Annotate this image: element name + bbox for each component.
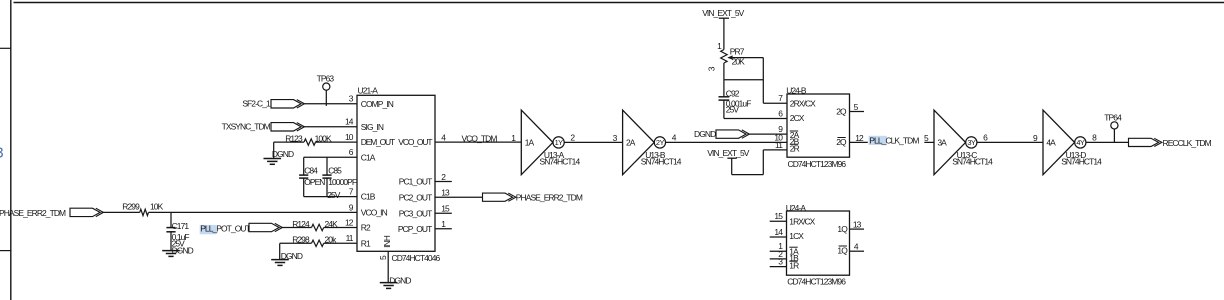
svg-text:PC2_OUT: PC2_OUT <box>399 192 432 202</box>
svg-text:11: 11 <box>346 233 354 243</box>
svg-text:DGND: DGND <box>694 129 716 139</box>
svg-text:25V: 25V <box>327 190 341 200</box>
svg-text:10: 10 <box>345 132 354 142</box>
svg-text:3Y: 3Y <box>967 138 976 147</box>
svg-text:VIN_EXT_5V: VIN_EXT_5V <box>702 8 744 18</box>
svg-text:R123: R123 <box>285 134 303 144</box>
svg-text:DGND: DGND <box>272 149 294 159</box>
svg-text:TP63: TP63 <box>317 73 335 83</box>
svg-text:10K: 10K <box>150 201 164 211</box>
svg-text:C85: C85 <box>328 165 342 175</box>
svg-text:24K: 24K <box>325 219 339 229</box>
svg-text:VCO_TDM: VCO_TDM <box>462 133 498 143</box>
svg-text:PCP_OUT: PCP_OUT <box>398 224 432 234</box>
svg-text:1Q: 1Q <box>837 224 848 234</box>
svg-text:2Q: 2Q <box>836 107 847 117</box>
svg-text:12: 12 <box>345 217 354 227</box>
svg-text:TP64: TP64 <box>1104 113 1122 123</box>
svg-text:2A: 2A <box>626 138 636 148</box>
svg-text:VIN_EXT_5V: VIN_EXT_5V <box>707 148 749 158</box>
svg-text:C1B: C1B <box>361 192 376 202</box>
svg-text:DGND: DGND <box>389 275 411 285</box>
svg-text:PHASE_ERR2_TDM: PHASE_ERR2_TDM <box>0 208 66 218</box>
svg-text:CD74HCT4046: CD74HCT4046 <box>392 253 441 263</box>
svg-text:CD74HCT123M96: CD74HCT123M96 <box>788 159 847 169</box>
svg-text:PC1_OUT: PC1_OUT <box>399 177 432 187</box>
svg-text:SF2-C_1: SF2-C_1 <box>242 99 271 109</box>
svg-text:R124: R124 <box>292 219 310 229</box>
svg-text:100K: 100K <box>315 134 332 144</box>
svg-text:C1A: C1A <box>361 152 376 162</box>
svg-text:1RX/CX: 1RX/CX <box>789 216 815 226</box>
svg-text:13: 13 <box>853 220 862 230</box>
svg-text:SN74HCT14: SN74HCT14 <box>952 156 993 166</box>
svg-text:U24-B: U24-B <box>786 86 807 96</box>
svg-text:10000PF: 10000PF <box>328 177 357 187</box>
svg-text:4Y: 4Y <box>1076 138 1085 147</box>
svg-text:DGND: DGND <box>172 245 194 255</box>
svg-text:1Q: 1Q <box>837 245 848 255</box>
svg-text:U21-A: U21-A <box>358 86 379 96</box>
svg-text:2R: 2R <box>790 144 800 154</box>
svg-text:C92: C92 <box>726 88 740 98</box>
svg-text:1A: 1A <box>525 138 535 148</box>
svg-text:SN74HCT14: SN74HCT14 <box>641 156 682 166</box>
svg-text:1CX: 1CX <box>789 231 804 241</box>
svg-text:INH: INH <box>382 235 392 248</box>
svg-text:CD74HCT123M96: CD74HCT123M96 <box>787 277 846 287</box>
svg-text:RECCLK_TDM: RECCLK_TDM <box>1163 138 1212 148</box>
svg-text:PR7: PR7 <box>730 46 745 56</box>
svg-text:11: 11 <box>775 140 783 150</box>
svg-text:4A: 4A <box>1046 138 1056 148</box>
svg-text:2CX: 2CX <box>790 113 805 123</box>
svg-text:20k: 20k <box>325 234 338 244</box>
svg-text:PHASE_ERR2_TDM: PHASE_ERR2_TDM <box>516 192 583 202</box>
svg-text:VCO_OUT: VCO_OUT <box>398 137 432 147</box>
svg-text:14: 14 <box>774 227 783 237</box>
svg-text:25V: 25V <box>726 105 740 115</box>
svg-text:DGND: DGND <box>281 251 303 261</box>
svg-text:DEM_OUT: DEM_OUT <box>361 137 395 147</box>
svg-text:VCO_IN: VCO_IN <box>361 208 388 218</box>
svg-text:13: 13 <box>441 188 450 198</box>
svg-text:12: 12 <box>855 133 864 143</box>
svg-text:SIG_IN: SIG_IN <box>361 122 384 132</box>
svg-text:R2: R2 <box>361 223 371 233</box>
svg-text:PLL_POT_OUT: PLL_POT_OUT <box>200 224 250 234</box>
svg-text:R1: R1 <box>361 238 371 248</box>
svg-text:14: 14 <box>345 117 354 127</box>
svg-text:U24-A: U24-A <box>786 203 807 213</box>
svg-text:R299: R299 <box>122 201 140 211</box>
svg-text:PC3_OUT: PC3_OUT <box>399 208 432 218</box>
svg-text:OPEN: OPEN <box>304 177 325 187</box>
svg-text:3A: 3A <box>937 138 947 148</box>
svg-text:C171: C171 <box>172 221 190 231</box>
svg-text:PLL_CLK_TDM: PLL_CLK_TDM <box>869 136 919 146</box>
svg-text:2Q: 2Q <box>836 137 847 147</box>
svg-text:15: 15 <box>441 204 450 214</box>
svg-text:2RX/CX: 2RX/CX <box>790 98 816 108</box>
svg-text:TXSYNC_TDM: TXSYNC_TDM <box>222 122 271 132</box>
svg-text:2Y: 2Y <box>656 138 665 147</box>
svg-text:1R: 1R <box>789 260 799 270</box>
svg-text:R298: R298 <box>292 234 310 244</box>
svg-text:COMP_IN: COMP_IN <box>361 99 394 109</box>
svg-text:15: 15 <box>774 211 783 221</box>
svg-text:SN74HCT14: SN74HCT14 <box>540 156 581 166</box>
svg-text:1Y: 1Y <box>555 138 564 147</box>
svg-text:3: 3 <box>0 146 4 162</box>
svg-text:SN74HCT14: SN74HCT14 <box>1061 156 1102 166</box>
svg-text:C84: C84 <box>304 165 318 175</box>
